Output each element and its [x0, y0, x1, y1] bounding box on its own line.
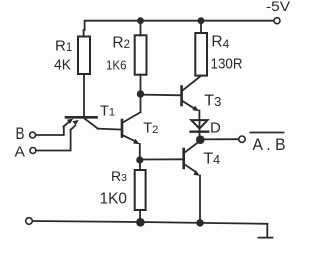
wire T2 emitter riser: [139, 144, 141, 160]
svg-text:T3: T3: [204, 93, 221, 110]
label R4: [211, 33, 229, 51]
svg-text:D: D: [210, 119, 221, 136]
label T1: [100, 103, 115, 119]
label T2: [143, 120, 158, 136]
label A.B output: [253, 136, 286, 154]
output terminal: [239, 136, 245, 142]
wire T3 emitter to diode: [198, 111, 200, 121]
transistor T2: [122, 112, 141, 144]
overline A.B: [251, 132, 284, 134]
label T4: [203, 151, 220, 168]
svg-text:1K6: 1K6: [106, 57, 127, 72]
junction node C2: [137, 90, 144, 97]
junction T4 / ground rail: [196, 219, 203, 226]
junction top rail / R4: [198, 17, 205, 24]
wire R1 to T1 base: [83, 74, 85, 117]
transistor T1: [64, 117, 98, 130]
svg-text:R2: R2: [112, 35, 130, 52]
ground terminal circle: [26, 218, 33, 225]
label T3: [204, 93, 221, 110]
label R1: [55, 38, 72, 55]
input terminal B: [30, 132, 36, 138]
resistor R1: [78, 37, 90, 75]
junction node E2: [136, 156, 143, 163]
wire node C2 to T3 base: [141, 94, 182, 97]
svg-text:A: A: [15, 144, 26, 160]
wire T2 collector riser: [140, 94, 142, 112]
wire input B to T1 emitter1: [36, 127, 64, 136]
label 130R: [211, 56, 243, 73]
diode D: [191, 120, 209, 139]
power rail -5V: [84, 21, 274, 37]
label R2: [112, 35, 130, 52]
wire node E2 to R3: [139, 160, 141, 170]
svg-text:A . B: A . B: [253, 136, 286, 154]
wire rail to R4: [200, 21, 202, 33]
svg-text:-5V: -5V: [266, 0, 291, 14]
wire R3 to ground rail: [139, 210, 141, 222]
transistor T3: [182, 76, 201, 111]
wire rail to R2: [140, 21, 142, 36]
ground rail: [32, 221, 267, 224]
wire node E2 to T4 base: [140, 158, 184, 160]
svg-text:T1: T1: [100, 103, 115, 119]
label B: [16, 124, 25, 143]
svg-text:B: B: [16, 124, 25, 143]
transistor T4: [184, 141, 200, 176]
svg-text:T2: T2: [143, 120, 158, 136]
label 1K6: [106, 57, 127, 72]
label R3: [111, 168, 127, 184]
svg-text:1K0: 1K0: [100, 190, 128, 207]
label A: [15, 144, 26, 160]
svg-text:R3: R3: [111, 168, 127, 184]
resistor R4: [195, 33, 207, 76]
label -5V: [266, 0, 291, 14]
wire output node to terminal: [200, 138, 238, 140]
resistor R3: [135, 170, 146, 210]
junction output node: [196, 135, 205, 144]
wire input A to T1 emitter2: [36, 130, 71, 151]
wire R2 to node C2: [140, 75, 142, 94]
junction R3 / ground rail: [136, 218, 145, 227]
svg-text:130R: 130R: [211, 56, 243, 73]
resistor R2: [135, 35, 147, 74]
wire T1 collector to T2 base: [98, 129, 122, 130]
svg-text:T4: T4: [203, 151, 220, 168]
ground symbol: [259, 224, 273, 238]
svg-text:R1: R1: [55, 38, 72, 55]
svg-text:R4: R4: [211, 33, 229, 51]
terminal -5V: [274, 18, 280, 24]
input terminal A: [30, 148, 36, 154]
svg-text:4K: 4K: [54, 57, 71, 74]
label 1K0: [100, 190, 128, 207]
label 4K: [54, 57, 71, 74]
label D: [210, 119, 221, 136]
wire T4 emitter to ground rail: [199, 176, 201, 223]
junction top rail / R2: [137, 17, 144, 24]
